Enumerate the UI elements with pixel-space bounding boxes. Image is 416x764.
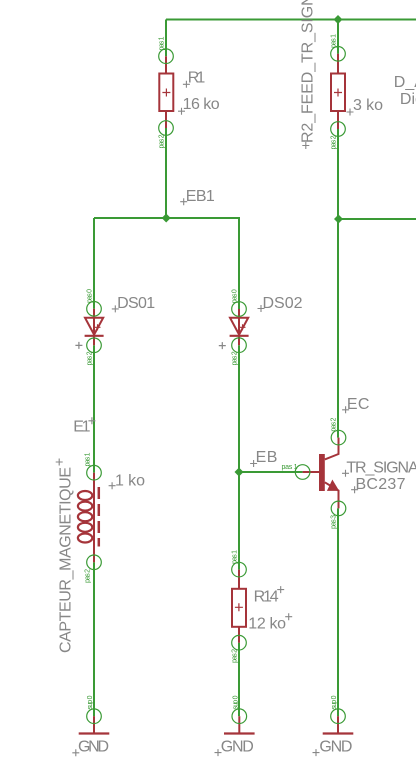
svg-text:GND: GND [78,739,109,756]
wire right column emitter to GND [337,508,339,716]
wire left column L1 to GND [93,562,95,716]
pin circle emitter [331,501,346,516]
svg-text:pas 1: pas 1 [85,452,92,466]
cross 3 ko origin [347,109,354,116]
inductor L1 CAPTEUR_MAGNETIQUE [78,473,99,563]
junction EC net [334,215,343,224]
svg-text:EB: EB [256,449,278,466]
svg-text:pas 1: pas 1 [159,36,166,50]
wire R1 top vertical [165,20,167,57]
svg-text:pas 0: pas 0 [87,289,94,303]
resistor R2 [331,54,345,129]
cross E1 origin [88,417,95,424]
svg-text:D_A: D_A [394,74,416,91]
plus mark DS01 [75,342,82,349]
pin circle GND middle [232,709,247,724]
svg-text:DS01: DS01 [117,295,155,312]
svg-text:R1: R1 [188,70,206,87]
svg-text:GND: GND [221,739,254,756]
wire middle column upper [238,218,240,309]
svg-text:Dio: Dio [400,91,416,108]
transistor Q1 BC237 [303,438,339,509]
svg-text:DS02: DS02 [263,295,303,312]
pin circle R2 pin2 [331,122,346,137]
cross R1 label origin [183,81,190,88]
wire EB1 horizontal [94,217,240,219]
cross DS01 origin [112,305,119,312]
pin circle L1 bottom [87,555,102,570]
wire right column R2 top [337,20,339,54]
pin circle DS01 bottom [87,338,102,353]
cross 12 ko origin [285,613,292,620]
pin circle DS02 bottom [232,338,247,353]
cross BC237 origin [351,486,358,493]
wire EB horizontal to base [239,471,303,473]
wire right horizontal at EC net [338,218,416,220]
wire middle column DS02 to R14 [238,345,240,569]
cross DS02 origin [258,305,265,312]
cross GND left origin [72,749,79,756]
wire R1 bottom to EB1 [165,128,167,218]
pin circle R1 pin2 [159,121,174,136]
svg-text:sup 0: sup 0 [232,695,239,709]
svg-text:sup 0: sup 0 [87,695,94,709]
cross CAPTEUR label origin [56,459,63,466]
pin circle L1 top [87,465,102,480]
svg-text:pas 2: pas 2 [159,134,166,148]
svg-text:pas 2: pas 2 [85,569,92,583]
svg-text:3 ko: 3 ko [353,97,383,114]
svg-text:pas 1: pas 1 [282,464,298,471]
svg-text:pas 2: pas 2 [331,418,338,432]
cross EB1 origin [180,198,187,205]
cross GND middle origin [215,749,222,756]
cross 16 ko origin [178,108,185,115]
svg-text:pas 2: pas 2 [232,351,239,365]
wire left column DS01 to L1 [93,345,95,472]
pin circle R14 pin1 [232,562,247,577]
wire left column upper [93,218,95,309]
svg-text:EC: EC [347,396,370,413]
svg-text:EB1: EB1 [186,188,215,205]
cross R2 label origin [302,142,309,149]
svg-text:R14: R14 [254,589,279,606]
pin circle GND left [87,709,102,724]
pin circle R1 pin1 [159,49,174,64]
svg-text:E1: E1 [73,419,90,436]
pin circle R2 pin1 [331,47,346,62]
svg-text:CAPTEUR_MAGNETIQUE: CAPTEUR_MAGNETIQUE [58,467,75,653]
pin circle DS01 top [87,302,102,317]
svg-text:BC237: BC237 [356,476,406,493]
svg-text:TR_SIGNAL: TR_SIGNAL [346,459,416,476]
cross 1 ko origin [109,482,116,489]
pin circle base [295,465,310,480]
svg-text:sup 0: sup 0 [331,695,338,709]
plus mark DS02 [219,342,226,349]
cross EB origin [250,460,257,467]
resistor R14 [232,570,246,643]
svg-text:pas 2: pas 2 [87,351,94,365]
svg-text:pas 2: pas 2 [232,649,239,663]
svg-text:12 ko: 12 ko [248,616,286,633]
svg-text:pas 3: pas 3 [331,515,338,529]
svg-text:pas 0: pas 0 [232,289,239,303]
junction EB [235,468,244,477]
diode DS02 [230,309,249,345]
diode DS01 [85,309,104,346]
svg-text:GND: GND [319,739,352,756]
svg-text:R2_FEED_TR_SIGNAL: R2_FEED_TR_SIGNAL [300,0,317,143]
wire middle column R14 to GND [238,643,240,717]
pin circle GND right [331,709,346,724]
cross GND right origin [313,749,320,756]
pin circle R14 pin2 [232,635,247,650]
cross TR_SIGNAL origin [342,470,349,477]
svg-text:pas 2: pas 2 [331,135,338,149]
svg-text:pas 1: pas 1 [232,550,239,564]
svg-text:1 ko: 1 ko [115,473,145,490]
junction top net at R2 [334,15,343,24]
pin circle collector [331,430,346,445]
ground GND right [323,716,354,733]
cross R14 origin [277,586,284,593]
pin circle DS02 top [232,302,247,317]
cross EC origin [342,406,349,413]
svg-text:pas 1: pas 1 [331,34,338,48]
ground GND left [79,716,110,733]
junction EB1 [162,214,171,223]
resistor R1 [159,56,173,128]
wire right column R2 to collector [337,129,339,438]
ground GND middle [224,716,255,733]
wire top horizontal net [166,19,416,21]
svg-text:16 ko: 16 ko [183,96,220,113]
